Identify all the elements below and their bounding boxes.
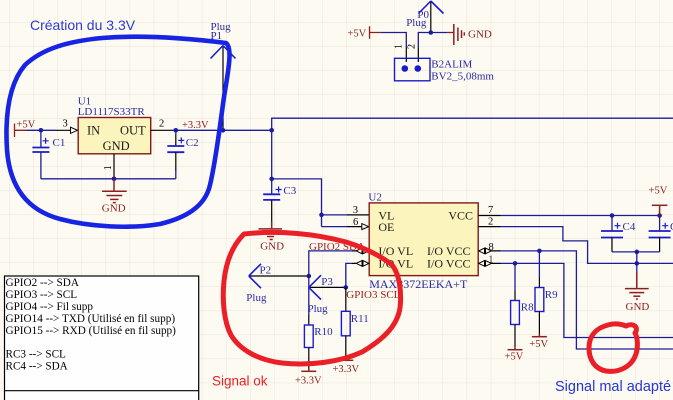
wire pin1 net [501, 263, 673, 337]
power +5V (under R8) [508, 347, 523, 350]
wire 3.3V riser and top rail [272, 118, 673, 179]
pin 3 VL of U2 [347, 214, 369, 216]
svg-text:Signal mal adapté: Signal mal adapté [555, 379, 671, 395]
svg-text:+3.3V: +3.3V [333, 364, 360, 375]
svg-text:1: 1 [103, 165, 114, 170]
svg-text:+5V: +5V [17, 120, 36, 131]
power +5V (right) [652, 205, 668, 215]
svg-text:2: 2 [488, 217, 493, 228]
svg-text:Signal ok: Signal ok [212, 374, 268, 389]
resistor R10 [308, 315, 310, 325]
svg-text:LD1117S33TR: LD1117S33TR [78, 106, 146, 118]
svg-text:1: 1 [488, 255, 493, 266]
svg-text:R8: R8 [521, 302, 534, 314]
wire C3 node to U2 VL/OE [272, 179, 322, 227]
resistor R11 [345, 287, 347, 311]
node P0/GND junction [429, 30, 434, 35]
svg-text:GND: GND [102, 203, 126, 215]
svg-text:GND: GND [468, 29, 492, 41]
node junction at C1 tap [39, 128, 44, 133]
svg-text:GND: GND [626, 301, 650, 313]
svg-text:GPIO15 --> RXD (Utilisé en fil: GPIO15 --> RXD (Utilisé en fil supp) [6, 325, 177, 337]
wire VCC to +5V [501, 215, 660, 217]
svg-text:Création du 3.3V: Création du 3.3V [30, 17, 136, 33]
wire C4/C5 bottom rail [612, 251, 660, 253]
svg-text:P2: P2 [260, 265, 272, 277]
wire ground rail C1-U1-C2 [41, 178, 176, 180]
svg-text:R10: R10 [314, 326, 333, 338]
svg-text:+5V: +5V [505, 352, 524, 363]
svg-text:U2: U2 [368, 191, 381, 203]
svg-text:GND: GND [103, 139, 130, 153]
node P2 junction [307, 274, 312, 279]
node R8 tap [513, 261, 518, 266]
svg-text:P0: P0 [417, 9, 429, 21]
svg-text:OE: OE [378, 220, 394, 234]
pin I/O VL row2 of U2 (bidir arrows) [352, 262, 369, 264]
port P0 Plug [430, 2, 432, 33]
pin 2 of P0 connector [417, 48, 419, 63]
node P1 on +3.3V [221, 128, 226, 133]
svg-text:3: 3 [353, 205, 358, 216]
wire pin2 net to right edge [501, 227, 673, 264]
port P1 Plug [222, 46, 224, 130]
port P2 Plug [250, 275, 309, 277]
power +3.3V (under R10) [301, 369, 316, 372]
resistor R8 [514, 263, 516, 290]
svg-text:I/O VCC: I/O VCC [427, 257, 470, 271]
wire +5V to connector pin 1 [381, 33, 406, 48]
op-amp U1 regulator LD1117S33TR body [78, 118, 151, 154]
svg-text:BV2_5,08mm: BV2_5,08mm [431, 70, 494, 82]
power +5V (top, B2ALIM) [370, 26, 382, 39]
node C5/+5V tap on VCC [657, 213, 662, 218]
pin 6 OE of U2 (input arrow) [347, 226, 369, 228]
svg-text:RC4 --> SDA: RC4 --> SDA [6, 361, 68, 373]
svg-text:Plug: Plug [246, 292, 267, 304]
svg-text:B2ALIM: B2ALIM [431, 59, 472, 71]
svg-text:1: 1 [394, 44, 405, 49]
node +3.3V branch to C3 [269, 128, 274, 133]
node P3 junction [344, 285, 349, 290]
wire GND stub [636, 252, 638, 272]
power +5V (under R9) [532, 334, 547, 337]
svg-text:8: 8 [489, 242, 494, 253]
svg-text:Plug: Plug [308, 303, 329, 315]
wire pin8 net [501, 251, 673, 349]
svg-text:OUT: OUT [120, 123, 146, 137]
pin 2 of U2 [478, 226, 500, 228]
svg-text:C1: C1 [53, 137, 66, 149]
svg-text:C4: C4 [623, 221, 636, 233]
node GND stub top [635, 250, 640, 255]
node GND stub on pin2 net [635, 261, 640, 266]
svg-text:RC3 --> SCL: RC3 --> SCL [6, 349, 67, 361]
port P3 Plug [310, 286, 346, 288]
pin 1 I/O VCC of U2 (bidir arrows) [478, 262, 500, 264]
wire to GND [431, 32, 447, 34]
ground GND (right) [625, 272, 649, 299]
svg-text:2: 2 [407, 44, 418, 49]
svg-text:P3: P3 [321, 276, 333, 288]
annotation blue circle (Création du 3.3V) [6, 37, 229, 227]
connector B2ALIM footprint [395, 58, 431, 81]
ground GND (under U1) [102, 179, 127, 203]
svg-text:R11: R11 [351, 313, 369, 325]
capacitor C1 [40, 130, 42, 147]
svg-text:C2: C2 [186, 137, 199, 149]
pin 1 of P0 connector [405, 48, 407, 63]
capacitor C3 [271, 179, 273, 194]
svg-text:+3.3V: +3.3V [182, 120, 209, 131]
text box notes [5, 276, 199, 400]
pin 7 VCC of U2 [478, 215, 500, 217]
svg-text:+5V: +5V [529, 339, 548, 350]
node C3 tap [269, 177, 274, 182]
pin I/O VL row1 of U2 (bidir arrows) [352, 250, 369, 252]
svg-text:7: 7 [488, 205, 493, 216]
annotation red circle (Signal ok) [223, 232, 400, 364]
svg-text:GPIO14 --> TXD (Utilisé en fil: GPIO14 --> TXD (Utilisé en fil supp) [6, 313, 176, 325]
svg-text:IN: IN [87, 123, 100, 137]
ground GND (under C3) [259, 222, 283, 240]
pin 1 (GND pin) of U1 [113, 154, 115, 179]
svg-text:VCC: VCC [448, 209, 473, 223]
wire +3.3V rail from U1 [171, 129, 272, 131]
pin 8 I/O VCC of U2 (bidir arrows) [478, 250, 500, 252]
svg-text:GND: GND [260, 241, 284, 253]
pin 3 of U1 (input arrow) [56, 129, 78, 131]
svg-text:+3.3V: +3.3V [295, 376, 322, 387]
svg-text:GPIO3 --> SCL: GPIO3 --> SCL [6, 289, 78, 301]
svg-text:GPIO2 --> SDA: GPIO2 --> SDA [6, 277, 79, 289]
node GND junction [112, 177, 117, 182]
svg-text:GPIO3 SCL: GPIO3 SCL [346, 289, 400, 301]
annotation red circle (Signal mal adapté) [589, 324, 637, 371]
wire SDA net down to R10 [309, 251, 352, 315]
node C4 tap on VCC [610, 213, 615, 218]
capacitor C5 [659, 216, 661, 231]
resistor R9 [538, 251, 540, 278]
IC U2 MAX3372 body [369, 203, 478, 276]
power +5V (left, feeding U1) [15, 124, 28, 138]
svg-text:+5V: +5V [348, 29, 367, 40]
pin 2 of U1 [151, 129, 171, 131]
node +3.3V at C2 [174, 128, 179, 133]
svg-text:3: 3 [63, 119, 68, 130]
svg-text:R9: R9 [545, 289, 558, 301]
ground GND (right of B2ALIM, rotated) [454, 24, 465, 45]
svg-text:2: 2 [159, 119, 164, 130]
power +3.3V (under R11) [338, 358, 353, 361]
svg-text:+5V: +5V [649, 186, 668, 197]
svg-text:GPIO4 --> Fil supp: GPIO4 --> Fil supp [6, 301, 94, 313]
node R9 tap [537, 249, 542, 254]
svg-text:C3: C3 [283, 185, 296, 197]
svg-text:6: 6 [353, 217, 358, 228]
wire SCL net down to R11 [346, 263, 352, 288]
capacitor C2 [175, 130, 177, 134]
capacitor C4 [611, 216, 613, 231]
wire +5V to U1 pin 3 [27, 129, 56, 131]
